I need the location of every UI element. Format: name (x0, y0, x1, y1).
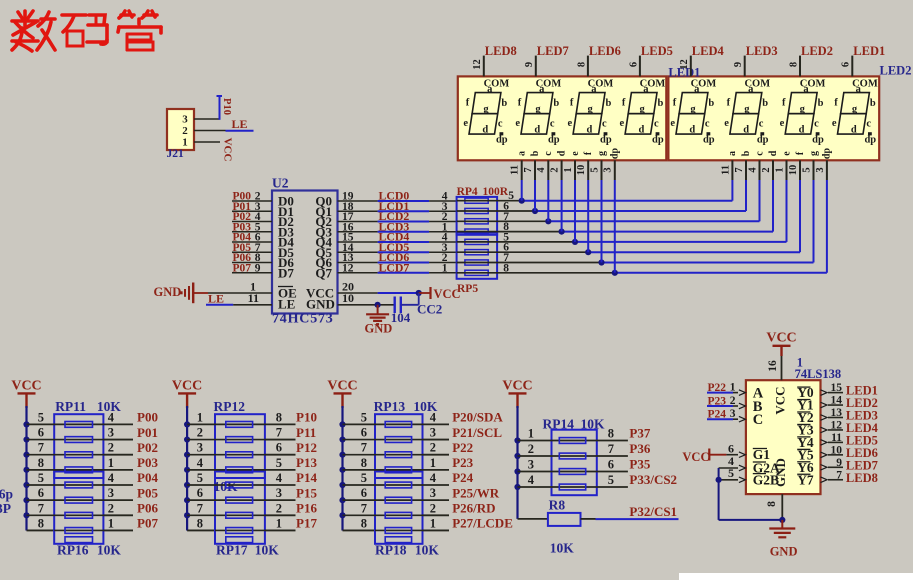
resistor pack RP17 body (215, 472, 265, 544)
net label P10 (296, 410, 317, 425)
junction dot pin 8 / ground (779, 517, 785, 523)
ground symbol below CC2 (366, 305, 389, 324)
right wire to P02 (103, 454, 133, 456)
svg-text:P12: P12 (296, 440, 317, 455)
svg-text:6: 6 (608, 458, 614, 472)
svg-text:e: e (832, 118, 837, 129)
net label P10 (221, 98, 232, 115)
junction dot RP13 row 6 (339, 497, 345, 503)
svg-text:5: 5 (589, 167, 600, 172)
svg-text:6: 6 (38, 486, 44, 500)
74LS138 pin number 14 (831, 395, 843, 407)
junction dot G2B (716, 477, 722, 483)
svg-text:4: 4 (197, 456, 204, 470)
RP11 left wire pin 7 (27, 454, 104, 456)
74LS138 input pin 1 net P22 (707, 390, 745, 396)
left pin number 5 (361, 471, 367, 485)
svg-text:P22: P22 (708, 382, 727, 394)
left pin number 8 (38, 456, 44, 470)
svg-text:5: 5 (276, 456, 282, 470)
svg-text:P24: P24 (708, 409, 727, 421)
svg-text:b: b (553, 98, 559, 109)
RP12 left wire pin 4 (187, 469, 265, 471)
svg-text:2: 2 (730, 395, 736, 407)
DS1 digit 3 seven-segment glyph (567, 78, 613, 145)
svg-text:GND: GND (306, 297, 335, 312)
U2 pin 10 wire GND row (338, 291, 395, 305)
text fragment 3p (clipped at left edge) (0, 487, 13, 502)
svg-text:g: g (690, 104, 696, 115)
DS2 digit 3 seven-segment glyph (780, 78, 826, 145)
wire J21 pin1 (194, 141, 220, 143)
74LS138 output pin 15 Y0 wire, net LED1 (821, 390, 844, 396)
svg-text:g: g (852, 104, 858, 115)
RP11 left wire pin 8 (27, 469, 104, 471)
svg-text:P10: P10 (221, 98, 232, 115)
junction dp at display DS1 column (612, 270, 618, 276)
RP13 left wire pin 7 (343, 454, 423, 456)
junction dot RP11 row 1 (23, 421, 29, 427)
svg-text:d: d (586, 124, 592, 135)
resistor pack RP4 body (457, 197, 498, 235)
resistor RP13/RP18 R8 (385, 528, 411, 534)
U2 pin name D0 (278, 194, 294, 209)
svg-text:b: b (501, 98, 507, 109)
U2 pin 4 D2 input wire, net P02 (232, 221, 272, 223)
svg-text:b: b (762, 98, 768, 109)
U2 pin name Q6 (315, 255, 332, 270)
svg-text:7: 7 (836, 469, 842, 481)
right pin number 2 (430, 441, 436, 455)
U2 pin 13 Q6 output wire, net LCD6 (338, 262, 457, 264)
DS1 COM pin number 6 (628, 62, 639, 67)
net label LED7 (846, 458, 878, 472)
U2 pin 8 D6 input wire, net P06 (232, 262, 272, 264)
right pin number 4 (430, 471, 437, 485)
svg-text:1: 1 (197, 410, 203, 424)
svg-text:g: g (808, 151, 819, 156)
net label P06 (233, 252, 252, 264)
resistor RP11/RP16 R8 (65, 528, 93, 534)
net label LED2 (801, 44, 833, 58)
VCC power symbol at G1 (682, 449, 709, 465)
net label P25/WR (452, 485, 500, 500)
svg-text:3: 3 (276, 486, 282, 500)
U2 pin number 5 (255, 221, 261, 233)
net label LCD2 (379, 209, 410, 223)
resistor RP4.4 (465, 229, 488, 234)
junction dot RP13 row 7 (339, 512, 345, 518)
right wire to P01 (103, 439, 133, 441)
left pin number 6 (361, 486, 367, 500)
RP17 left wire pin 8 (215, 529, 265, 531)
svg-text:3: 3 (603, 167, 614, 172)
DS2 segment pin d wire (772, 160, 774, 231)
resistor RP13/RP18 R3 (385, 452, 411, 458)
svg-text:6: 6 (361, 486, 367, 500)
net label P16 (296, 501, 317, 516)
net label LED1 (846, 384, 878, 398)
svg-text:c: c (754, 151, 765, 156)
svg-text:LED2: LED2 (880, 64, 912, 78)
svg-text:14: 14 (831, 395, 843, 407)
left pin number 6 (38, 426, 44, 440)
svg-text:e: e (781, 151, 792, 156)
svg-text:LED7: LED7 (537, 44, 569, 58)
net label LED8 (485, 44, 517, 58)
wire COM digit 2 of DS1, net LED7 (535, 56, 537, 77)
svg-text:6: 6 (197, 486, 203, 500)
net label P02 (137, 440, 158, 455)
wire segment net a horizontal (457, 200, 733, 202)
resistor RP13/RP18 R1 (385, 422, 411, 428)
wire COM digit 2 of DS2, net LED3 (744, 56, 746, 77)
svg-text:J21: J21 (167, 148, 185, 160)
svg-text:P36: P36 (629, 441, 650, 456)
svg-text:9: 9 (255, 262, 261, 274)
svg-text:P24: P24 (452, 470, 473, 485)
display module DS1 (4-digit 7-segment) body (458, 76, 667, 160)
RP4/RP5 left pin number 4 (442, 232, 448, 244)
right wire to P06 (103, 514, 133, 516)
U2 pin number 18 (342, 201, 354, 213)
junction dot RP11 row 7 (23, 512, 29, 518)
RP14 right pin number 5 (608, 473, 614, 487)
svg-text:3: 3 (815, 167, 826, 172)
VCC power symbol right of U2 (419, 287, 461, 301)
decoder U3 74LS138 body (746, 380, 821, 494)
svg-text:P17: P17 (296, 516, 317, 531)
right pin number 7 (276, 426, 282, 440)
net label LED1 (853, 44, 885, 58)
left pin number 6 (197, 486, 203, 500)
U2 pin 20 wire to VCC (338, 280, 419, 294)
U2 pin 7 D5 input wire, net P05 (232, 251, 272, 253)
resistor RP11/RP16 R1 (65, 422, 93, 428)
svg-text:6: 6 (276, 441, 282, 455)
svg-text:P06: P06 (137, 501, 158, 516)
U2 pin name VCC (306, 286, 334, 301)
svg-text:d: d (743, 124, 749, 135)
right pin number 2 (430, 501, 436, 515)
VCC power symbol for RP12 (172, 379, 202, 409)
svg-text:g: g (596, 151, 607, 156)
svg-text:3: 3 (108, 486, 114, 500)
right pin number 1 (108, 456, 114, 470)
wire COM digit 4 of DS2, net LED1 (851, 56, 853, 77)
designator 1 74LS138 (795, 356, 842, 381)
DS1 segment pin b label (rotated) (530, 150, 541, 156)
wire J21 pin3 to P10 (194, 118, 220, 120)
svg-text:9: 9 (836, 457, 842, 469)
RP4/RP5 left pin number 2 (442, 211, 448, 223)
designator RP18 value 10K (375, 543, 439, 558)
net label P06 (137, 501, 158, 516)
74LS138 pin number 10 (831, 444, 843, 456)
GND net label at U2 OE (154, 285, 182, 299)
svg-text:a: a (539, 84, 545, 95)
DS2 segment pin number 2 (761, 167, 772, 172)
svg-text:b: b (605, 98, 611, 109)
junction dot RP12 row 3 (184, 452, 190, 458)
74LS138 pin number 11 (831, 432, 842, 444)
DS1 segment pin a label (rotated) (516, 151, 527, 156)
U2 pin name Q0 (315, 194, 332, 209)
svg-text:a: a (803, 84, 809, 95)
net label LCD3 (379, 219, 410, 233)
svg-text:3: 3 (528, 458, 534, 472)
resistor pack RP12 body (215, 414, 265, 478)
U2 pin 14 Q5 output wire, net LCD5 (338, 251, 457, 253)
junction dot RP14 row 3 (514, 468, 520, 474)
resistor pack RP11 body (54, 414, 103, 478)
RP14 right wire to P35 (597, 471, 628, 473)
svg-text:7: 7 (734, 167, 745, 172)
VCC power symbol above 74LS138 (766, 331, 796, 357)
net label LCD4 (379, 230, 410, 244)
RP16 left wire pin 7 (27, 514, 104, 516)
U2 pin name D7 (278, 265, 294, 280)
wire COM digit 3 of DS1, net LED6 (587, 56, 589, 77)
junction dot RP13 row 4 (339, 467, 345, 473)
resistor RP12/RP17 R4 (226, 467, 253, 473)
right wire to P16 (265, 514, 296, 516)
junction dot RP14 row 2 (514, 453, 520, 459)
right wire to P07 (103, 529, 133, 531)
svg-text:b: b (741, 150, 752, 156)
left pin number 8 (361, 456, 367, 470)
right pin number 5 (276, 456, 282, 470)
svg-text:10K: 10K (581, 416, 606, 431)
DS1 segment pin a wire (521, 160, 523, 200)
DS1 COM pin number 8 (576, 62, 587, 67)
svg-text:1: 1 (430, 516, 436, 530)
RP17 left wire pin 5 (187, 484, 265, 486)
74LS138 pin number 15 (831, 382, 843, 394)
RP14 right wire to P33/CS2 (597, 486, 628, 488)
right pin number 3 (430, 486, 436, 500)
designator RP4 and value 100R (457, 186, 509, 198)
svg-text:1: 1 (563, 167, 574, 172)
svg-text:f: f (570, 98, 574, 109)
74LS138 pin name G2B (overline) (753, 472, 779, 487)
net label LED4 (692, 44, 725, 58)
RP14 left pin number 1 (528, 427, 534, 441)
left pin number 5 (361, 410, 367, 424)
left pin number 5 (38, 410, 44, 424)
svg-text:5: 5 (361, 410, 367, 424)
junction e at display DS1 column (572, 239, 578, 245)
RP4/RP5 right pin number 7 (503, 211, 509, 223)
svg-text:f: f (673, 98, 677, 109)
svg-text:P00: P00 (137, 410, 158, 425)
svg-text:8: 8 (788, 62, 799, 67)
74LS138 output pin 9 Y6 wire, net LED7 (821, 465, 844, 471)
svg-text:LE: LE (232, 117, 248, 131)
resistor RP4.1 (465, 198, 488, 203)
right pin number 4 (430, 410, 437, 424)
U2 pin number 7 (255, 242, 261, 254)
svg-text:1: 1 (730, 382, 736, 394)
svg-text:2: 2 (550, 167, 561, 172)
U2 pin name D4 (278, 235, 294, 250)
wire COM digit 1 of DS2, net LED4 (690, 56, 692, 77)
svg-text:b: b (870, 98, 876, 109)
U2 pin name D3 (278, 224, 294, 239)
wire VCC to pin 16 (781, 356, 783, 380)
74LS138 output pin 14 Y1 wire, net LED2 (821, 402, 844, 408)
svg-text:12: 12 (679, 59, 690, 70)
net label P04 (137, 470, 158, 485)
svg-text:9: 9 (733, 62, 744, 67)
right wire to P25/WR (423, 499, 450, 501)
RP4/RP5 left pin number 3 (442, 201, 448, 213)
right wire to P17 (265, 529, 296, 531)
VCC power symbol for RP11 (11, 379, 41, 409)
svg-text:g: g (800, 104, 806, 115)
net label LED8 (846, 471, 878, 485)
svg-text:6: 6 (628, 62, 639, 67)
net label P22 (708, 382, 727, 394)
svg-text:a: a (856, 84, 862, 95)
svg-text:P20/SDA: P20/SDA (452, 410, 503, 425)
RP14 left pin number 3 (528, 458, 534, 472)
left pin number 6 (361, 426, 367, 440)
svg-text:11: 11 (720, 165, 731, 175)
svg-text:11: 11 (831, 432, 842, 444)
net label P23 (708, 396, 727, 408)
svg-text:1: 1 (276, 516, 282, 530)
RP14 right pin number 6 (608, 458, 614, 472)
DS2 segment pin g wire (813, 160, 815, 262)
wire J21 pin2 (194, 130, 226, 132)
U2 pin number 9 (255, 262, 261, 274)
74LS138 output pin 10 Y5 wire, net LED6 (821, 452, 844, 458)
display module DS2 (4-digit 7-segment) body (668, 76, 879, 160)
DS2 digit 4 seven-segment glyph (832, 78, 878, 145)
RP14 left wire pin 1 (518, 440, 597, 442)
svg-text:1: 1 (430, 456, 436, 470)
resistor RP14.1 (559, 438, 585, 444)
svg-text:LED1: LED1 (853, 44, 885, 58)
title text 数码管 (hand-drawn strokes) (12, 11, 161, 51)
svg-text:c: c (654, 118, 659, 129)
svg-text:g: g (535, 104, 541, 115)
svg-text:dp: dp (822, 148, 833, 160)
74LS138 pin name Y0 (overline) (797, 385, 814, 400)
svg-text:P07: P07 (137, 516, 158, 531)
DS1 segment pin c label (rotated) (543, 151, 554, 156)
right pin number 4 (108, 410, 115, 424)
DS2 segment pin b label (rotated) (741, 150, 752, 156)
U2 pin 5 D3 input wire, net P03 (232, 231, 272, 233)
74LS138 pin name Y7 (overline) (797, 472, 814, 487)
right wire to P12 (265, 454, 296, 456)
svg-text:RP12: RP12 (214, 399, 246, 414)
U2 pin number 16 (342, 221, 354, 233)
DS1 segment pin e label (rotated) (570, 151, 581, 156)
RP14 left wire pin 4 (518, 486, 597, 488)
74LS138 pin number 1 (730, 382, 736, 394)
svg-text:c: c (705, 118, 710, 129)
right pin number 6 (276, 441, 282, 455)
svg-text:7: 7 (361, 501, 367, 515)
svg-text:4: 4 (276, 471, 283, 485)
svg-text:16: 16 (767, 360, 779, 372)
left pin number 7 (361, 501, 367, 515)
svg-text:8: 8 (276, 410, 282, 424)
junction dot RP11 row 3 (23, 452, 29, 458)
DS1 digit 1 seven-segment glyph (463, 78, 509, 145)
RP13 left wire pin 8 (343, 469, 423, 471)
right pin number 1 (430, 456, 436, 470)
RP4/RP5 right pin number 8 (503, 262, 509, 274)
svg-text:U2: U2 (272, 176, 289, 191)
right wire to P15 (265, 499, 296, 501)
svg-text:9: 9 (524, 62, 535, 67)
net label P23 (452, 455, 473, 470)
svg-text:b: b (657, 98, 663, 109)
74LS138 pin name Y1 (overline) (797, 398, 814, 413)
net label LCD7 (379, 260, 410, 274)
DS2 digit 2 seven-segment glyph (724, 78, 770, 145)
74LS138 output pin 13 Y2 wire, net LED3 (821, 415, 844, 421)
RP4/RP5 right pin number 5 (508, 190, 514, 202)
svg-text:P13: P13 (296, 455, 317, 470)
right wire to P26/RD (423, 514, 450, 516)
svg-text:7: 7 (38, 441, 44, 455)
RP4/RP5 right pin number 8 (503, 221, 509, 233)
RP4/RP5 left pin number 2 (442, 252, 448, 264)
resistor RP11/RP16 R9 (bottom common) (65, 537, 93, 543)
resistor RP13/RP18 R4 (385, 467, 411, 473)
svg-text:G2B: G2B (753, 472, 779, 487)
svg-text:dp: dp (757, 134, 769, 145)
U2 pin 3 D1 input wire, net P01 (232, 210, 272, 212)
svg-text:100R: 100R (483, 186, 509, 198)
junction dot pin20/VCC (416, 290, 422, 296)
svg-text:5: 5 (361, 471, 367, 485)
svg-text:4: 4 (430, 410, 437, 424)
net label LED7 (537, 44, 569, 58)
DS2 segment pin number 10 (788, 165, 799, 176)
svg-text:P32/CS1: P32/CS1 (629, 504, 677, 519)
svg-text:P14: P14 (296, 470, 317, 485)
junction d at display DS1 column (559, 229, 565, 235)
resistor RP5.4 (465, 270, 488, 275)
net label P27/LCDE (452, 516, 513, 531)
U2 pin number 14 (342, 242, 354, 254)
svg-text:LED2: LED2 (801, 44, 833, 58)
U2 pin number 11 (248, 291, 259, 305)
svg-text:LCD7: LCD7 (379, 260, 410, 274)
left pin number 3 (197, 441, 203, 455)
svg-text:d: d (768, 150, 779, 156)
svg-text:P27/LCDE: P27/LCDE (452, 516, 513, 531)
latch U2 74HC573 body (272, 176, 338, 327)
resistor RP12/RP17 R6 (226, 497, 253, 503)
DS1 segment pin f wire (587, 160, 589, 252)
resistor RP11/RP16 R2 (65, 437, 93, 443)
RP4/RP5 left pin number 1 (442, 221, 448, 233)
junction dot RP11 row 4 (23, 467, 29, 473)
RP18 left wire pin 5 (343, 484, 423, 486)
DS2 segment pin c wire (759, 160, 761, 221)
svg-text:b: b (818, 98, 824, 109)
resistor RP11/RP16 R4 (65, 467, 93, 473)
svg-text:4: 4 (430, 471, 437, 485)
RP14 right pin number 7 (608, 442, 614, 456)
